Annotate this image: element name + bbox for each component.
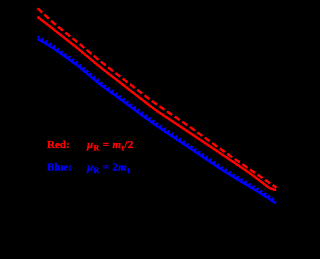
red dashed curve (scale mu_R = m_t/2, upper) — [38, 8, 277, 187]
svg-text:μR = 2mt: μR = 2mt — [86, 161, 130, 175]
blue solid curve (mu_R = 2 m_t) — [38, 39, 277, 203]
svg-text:μR = mt/2: μR = mt/2 — [86, 139, 134, 153]
svg-text:Red:: Red: — [47, 139, 70, 151]
blue dotted curve (scale mu_R = 2 m_t, upper) — [38, 36, 277, 200]
svg-text:Blue:: Blue: — [47, 161, 72, 173]
red solid curve (mu_R = m_t/2) — [38, 17, 277, 190]
